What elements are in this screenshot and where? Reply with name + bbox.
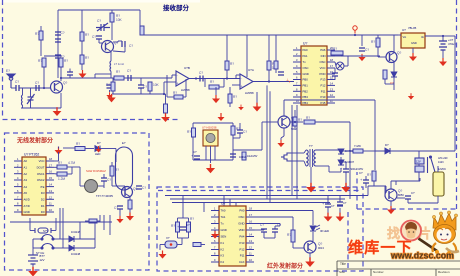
wire to amp <box>233 149 262 151</box>
crystal Y1 <box>35 228 51 233</box>
svg-text:P13: P13 <box>321 78 326 82</box>
svg-text:TA0: TA0 <box>221 209 226 213</box>
svg-text:PB3: PB3 <box>303 95 309 99</box>
svg-text:C?: C? <box>129 44 133 48</box>
ground <box>277 140 284 147</box>
svg-text:1N4148: 1N4148 <box>71 252 81 256</box>
VCC +5V <box>353 26 357 34</box>
svg-text:4123: 4123 <box>438 161 444 164</box>
wire <box>390 201 392 206</box>
svg-text:R?: R? <box>333 47 337 51</box>
resistor R9 <box>209 85 219 89</box>
svg-text:10K: 10K <box>153 83 160 87</box>
wire <box>320 195 341 197</box>
wire from IC pin <box>341 55 380 57</box>
svg-text:P12: P12 <box>240 248 245 252</box>
wire <box>236 74 240 76</box>
wire <box>54 166 57 168</box>
transistor Q7 <box>304 241 316 253</box>
resistor R3 <box>110 13 114 22</box>
svg-text:VCC: VCC <box>320 66 326 70</box>
svg-text:10K: 10K <box>116 18 123 22</box>
wire <box>32 239 34 255</box>
svg-text:U?B: U?B <box>184 66 190 70</box>
wire <box>111 162 113 166</box>
wire <box>261 122 263 150</box>
wire <box>112 78 114 82</box>
ground <box>212 95 220 103</box>
resistor R27 <box>176 222 180 232</box>
svg-text:U?: U? <box>303 42 307 46</box>
resistor R5 <box>111 82 115 91</box>
svg-text:C?: C? <box>390 81 394 85</box>
resistor R8 feedback <box>174 95 183 99</box>
svg-text:A6/D: A6/D <box>24 198 30 202</box>
diode D6 <box>69 236 74 242</box>
svg-text:C?: C? <box>243 130 247 134</box>
resistor R15 <box>383 70 387 79</box>
wire <box>74 247 95 249</box>
transistor Q4 <box>385 189 397 201</box>
ground <box>79 70 87 78</box>
svg-text:E?: E? <box>122 141 126 145</box>
wire <box>182 195 184 218</box>
wire <box>29 218 31 231</box>
capacitor C21 <box>101 178 107 181</box>
svg-text:C?: C? <box>92 35 96 39</box>
wire <box>391 180 420 182</box>
svg-text:GND: GND <box>303 72 309 76</box>
svg-text:POD: POD <box>319 72 325 76</box>
svg-text:P15: P15 <box>321 101 326 105</box>
wire <box>149 91 151 94</box>
wire <box>437 166 439 172</box>
wire <box>177 218 179 222</box>
svg-text:TA1: TA1 <box>221 215 226 219</box>
svg-text:Revision: Revision <box>438 270 450 274</box>
svg-text:PB1: PB1 <box>303 84 309 88</box>
wire +V bus <box>140 34 398 36</box>
resistor R32 <box>140 26 144 35</box>
svg-text:10uF/25V: 10uF/25V <box>247 155 258 158</box>
ground <box>439 58 447 66</box>
svg-text:C?: C? <box>61 31 65 35</box>
svg-text:U?: U? <box>221 202 225 206</box>
svg-text:无线发射部分: 无线发射部分 <box>16 137 53 145</box>
ground <box>253 103 262 112</box>
wire top rail <box>58 9 140 11</box>
svg-text:D3: D3 <box>41 191 45 195</box>
ground <box>106 92 112 98</box>
wire <box>201 244 205 246</box>
wire <box>74 238 95 240</box>
wire <box>62 208 64 248</box>
wire <box>292 217 294 226</box>
wire <box>335 55 348 57</box>
svg-text:T?: T? <box>309 144 313 148</box>
svg-text:C?: C? <box>365 48 369 52</box>
wire <box>374 151 376 170</box>
variable capacitor C4 <box>96 23 110 31</box>
wire <box>30 230 35 232</box>
capacitor C12 <box>200 76 203 82</box>
svg-text:C?: C? <box>411 191 415 195</box>
wire <box>408 202 438 204</box>
wire relay rail <box>375 150 455 152</box>
resistor R30 <box>291 230 295 242</box>
svg-text:DOUT: DOUT <box>37 166 45 170</box>
capacitor C31 <box>138 85 144 88</box>
ground <box>409 53 417 61</box>
svg-text:PB4: PB4 <box>303 101 309 105</box>
svg-text:R?: R? <box>76 142 80 146</box>
wire drop long <box>349 135 351 199</box>
ground <box>161 113 170 122</box>
wire <box>373 181 375 186</box>
ground <box>306 183 316 193</box>
svg-text:C?: C? <box>15 80 19 84</box>
wire <box>181 238 183 245</box>
capacitor C24 <box>180 227 186 230</box>
resistor R7 <box>59 58 63 67</box>
capacitor C14 <box>359 48 365 51</box>
svg-text:R?: R? <box>116 70 120 74</box>
wire <box>85 220 89 222</box>
wire <box>312 232 314 241</box>
svg-text:E?: E? <box>6 69 10 73</box>
svg-text:C?: C? <box>186 223 190 227</box>
ground <box>341 183 351 193</box>
wire <box>160 244 165 246</box>
wire <box>412 48 414 53</box>
ground small <box>238 105 244 111</box>
wire VCC pin <box>54 160 59 162</box>
wire <box>232 123 234 160</box>
capacitor C25 <box>261 229 267 232</box>
trimmer capacitor C9 <box>27 94 35 104</box>
SAW resonator <box>85 180 98 193</box>
wire <box>367 186 369 196</box>
resistor R33 <box>164 104 168 113</box>
resistor R21 <box>304 120 315 124</box>
wire bus1 <box>266 85 268 199</box>
wire <box>418 172 420 178</box>
capacitor C17 <box>363 180 369 183</box>
svg-text:C?: C? <box>193 150 197 154</box>
wire <box>44 55 62 57</box>
wire drop <box>223 196 225 207</box>
wire <box>292 226 294 230</box>
wire <box>58 147 60 149</box>
IC U1 PT2262 encoder <box>14 153 54 216</box>
resistor R28 <box>187 222 191 232</box>
svg-text:C?: C? <box>107 178 111 182</box>
capacitor C22 <box>136 186 142 189</box>
svg-text:PB0: PB0 <box>303 78 309 82</box>
wire <box>119 209 121 216</box>
wire <box>339 196 341 203</box>
transformer T1 <box>306 149 316 167</box>
wire <box>115 149 117 163</box>
svg-text:PB2: PB2 <box>303 90 309 94</box>
wire stub <box>109 215 111 235</box>
svg-text:GND: GND <box>24 210 30 214</box>
resistor R24 <box>57 172 67 176</box>
svg-text:7×2W: 7×2W <box>354 144 361 148</box>
wire <box>53 247 69 249</box>
wire <box>425 35 443 37</box>
wire <box>377 35 379 38</box>
wire <box>363 150 379 152</box>
wire <box>171 75 173 78</box>
svg-text:PA4: PA4 <box>239 235 245 239</box>
svg-text:A3: A3 <box>24 178 28 182</box>
resistor R6 <box>42 58 46 67</box>
ground <box>206 164 215 173</box>
wire +12V rail right <box>454 36 456 151</box>
ground <box>116 216 123 223</box>
resistor R1 <box>80 32 84 41</box>
wireless transmitter section border <box>5 133 150 270</box>
wire center tap <box>310 167 312 183</box>
svg-text:PA0: PA0 <box>303 48 309 52</box>
wire rail <box>341 150 353 152</box>
svg-text:R?: R? <box>85 56 89 60</box>
wire <box>443 35 455 37</box>
capacitor C8 <box>16 85 19 91</box>
wire collector up <box>283 100 285 116</box>
wire <box>275 69 277 73</box>
capacitor C16 2200uF <box>343 169 349 172</box>
wire drop <box>268 35 270 61</box>
wire <box>377 47 379 57</box>
svg-text:P11: P11 <box>321 90 326 94</box>
ground <box>28 267 38 276</box>
svg-text:X?: X? <box>166 236 170 240</box>
wire <box>281 136 284 138</box>
svg-text:TX?-??-300P9: TX?-??-300P9 <box>96 194 113 198</box>
resistor R31 <box>39 31 43 40</box>
wire <box>21 107 61 109</box>
resistor R36 <box>89 219 97 223</box>
resistor R18 <box>231 126 235 135</box>
wire key bus <box>10 221 112 223</box>
resistor R16 <box>372 171 376 181</box>
wire drop <box>229 199 231 206</box>
IR section inner border line <box>158 190 362 192</box>
wire <box>393 77 395 90</box>
wire ground bus <box>112 93 166 95</box>
svg-text:PA1: PA1 <box>303 54 309 58</box>
power section border left <box>356 172 358 209</box>
svg-text:1.2M: 1.2M <box>58 177 65 181</box>
wire <box>110 52 112 61</box>
svg-text:C?: C? <box>359 171 363 175</box>
IR receiver module U4 <box>203 130 218 146</box>
ground <box>53 107 62 116</box>
red VCC arrow <box>218 113 225 121</box>
svg-text:1N4148: 1N4148 <box>71 230 81 234</box>
svg-text:CLK: CLK <box>239 260 245 264</box>
svg-text:A7/D: A7/D <box>24 204 30 208</box>
inductor L2 <box>21 95 22 105</box>
svg-text:LM358: LM358 <box>245 91 254 95</box>
svg-text:OSC: OSC <box>303 66 309 70</box>
svg-text:S? CH: S? CH <box>36 251 44 255</box>
svg-text:www.dzsc.com: www.dzsc.com <box>390 251 454 261</box>
AC plug P1 <box>281 153 291 161</box>
wire <box>60 93 62 108</box>
wire <box>94 74 96 78</box>
diode D7 <box>69 245 74 251</box>
svg-text:R?: R? <box>35 32 39 36</box>
svg-text:K4: K4 <box>221 260 225 264</box>
capacitor C23 <box>117 206 123 209</box>
wire drop <box>275 35 277 61</box>
svg-text:A0: A0 <box>24 159 28 163</box>
wire <box>274 226 276 229</box>
section border segment <box>347 212 349 270</box>
svg-text:R?: R? <box>230 62 234 66</box>
resistor R14 <box>376 38 380 47</box>
svg-text:9013: 9013 <box>318 246 324 250</box>
svg-text:Number: Number <box>373 270 384 274</box>
wire <box>263 232 265 238</box>
battery BT1 <box>28 255 38 264</box>
wire <box>315 121 350 123</box>
svg-text:104GF: 104GF <box>239 156 247 159</box>
svg-text:U? PT262: U? PT262 <box>24 153 39 157</box>
wire drop V+ <box>246 35 248 77</box>
svg-text:U? HS0038: U? HS0038 <box>202 126 217 130</box>
wire <box>43 67 45 88</box>
wire <box>229 87 231 94</box>
wire <box>385 186 387 193</box>
module pin <box>214 146 216 160</box>
wire <box>418 178 420 181</box>
svg-text:R?: R? <box>64 59 68 63</box>
svg-text:LM358: LM358 <box>181 88 190 92</box>
svg-text:R?: R? <box>298 118 302 122</box>
svg-text:A4: A4 <box>24 185 28 189</box>
wire hbus3 <box>172 202 330 204</box>
wire <box>309 253 311 258</box>
capacitor C20 <box>194 156 200 159</box>
svg-text:JZC-22F: JZC-22F <box>438 157 448 160</box>
svg-text:P12: P12 <box>321 84 326 88</box>
wire collector bus <box>284 99 375 101</box>
svg-text:C?: C? <box>331 204 335 208</box>
wire <box>268 70 270 82</box>
op-amp U2B <box>176 71 189 86</box>
capacitor C11 <box>128 75 131 81</box>
svg-text:+: + <box>241 85 243 89</box>
inductor L1 <box>110 61 111 71</box>
wire drop <box>235 203 237 207</box>
power section border bottom <box>357 208 457 210</box>
LED D5 <box>95 146 100 152</box>
capacitor C27 <box>325 204 331 207</box>
svg-text:P13: P13 <box>240 241 245 245</box>
wire <box>418 151 420 158</box>
svg-text:A5: A5 <box>24 191 28 195</box>
resistor R4 <box>114 76 124 80</box>
IR LED D8 <box>310 226 316 231</box>
resistor R13 <box>331 51 343 55</box>
wire <box>397 197 405 199</box>
wire <box>69 69 71 73</box>
resistor R19 <box>242 152 246 160</box>
svg-text:R?: R? <box>287 233 291 237</box>
wire <box>159 245 161 251</box>
resistor R22 <box>75 147 85 151</box>
wire <box>94 222 96 248</box>
resistor R20 <box>293 117 297 126</box>
svg-text:GND: GND <box>238 222 244 226</box>
ground <box>159 251 167 259</box>
wire <box>327 207 329 213</box>
wire hbus2 <box>170 198 345 200</box>
svg-text:R?: R? <box>187 130 191 134</box>
wire <box>98 185 104 187</box>
svg-text:R?: R? <box>106 83 110 87</box>
receiver section border left <box>2 0 4 119</box>
capacitor C3 <box>67 72 73 75</box>
svg-text:C?: C? <box>114 206 118 210</box>
svg-text:LED: LED <box>95 152 100 156</box>
svg-text:接收部分: 接收部分 <box>163 3 190 12</box>
resistor R26 <box>128 200 132 209</box>
wire opamp out to IC <box>253 81 294 83</box>
wire <box>254 210 313 212</box>
wire <box>140 78 142 85</box>
svg-text:R?: R? <box>367 173 371 177</box>
svg-text:R?: R? <box>38 59 42 63</box>
ground <box>358 54 365 61</box>
resistor R2 <box>80 55 84 64</box>
svg-text:DIN: DIN <box>321 54 326 58</box>
wire <box>442 50 444 58</box>
capacitor C6 <box>122 41 125 47</box>
svg-text:+: + <box>177 82 179 86</box>
svg-text:C?: C? <box>35 81 39 85</box>
relay K1 <box>415 156 435 173</box>
svg-text:OSC: OSC <box>238 215 244 219</box>
wire bus4 <box>296 105 298 199</box>
capacitor C5 <box>96 36 102 39</box>
svg-text:D1: D1 <box>41 204 45 208</box>
ground <box>211 231 219 239</box>
capacitor C1 <box>55 32 61 35</box>
ground <box>107 94 115 103</box>
wire <box>280 138 282 140</box>
wire <box>165 94 167 104</box>
wire collector <box>393 35 395 52</box>
transistor Q1 <box>102 41 114 53</box>
svg-text:Q?: Q? <box>63 81 67 85</box>
wire emitter <box>393 62 395 72</box>
svg-text:OSC2: OSC2 <box>37 178 45 182</box>
wire <box>256 92 258 103</box>
capacitor C28 <box>337 202 343 205</box>
diode D4 <box>385 148 390 154</box>
svg-text:R?: R? <box>210 80 214 84</box>
svg-text:K3: K3 <box>221 254 225 258</box>
wire <box>85 148 94 150</box>
resistor R12 <box>228 94 232 103</box>
diode D3 <box>338 160 344 165</box>
svg-text:GND: GND <box>221 228 227 232</box>
